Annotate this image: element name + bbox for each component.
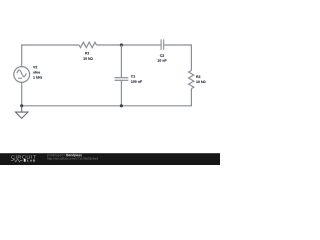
capacitor C1 (115, 78, 129, 81)
resistor R1 (79, 42, 96, 47)
label R2 (196, 76, 205, 83)
label C2 (158, 54, 167, 61)
node: ground junction (20, 104, 23, 107)
capacitor C2 (161, 39, 164, 50)
watermark logo CIRCUIT (11, 155, 36, 158)
resistor R2 (189, 71, 194, 89)
wire: C1 lower lead (120, 80, 122, 106)
wire: V2 top to top-left corner (21, 45, 23, 67)
wire: right rail lower (190, 89, 192, 107)
node: junction top of C1 (120, 43, 123, 46)
label R1 (83, 52, 92, 60)
wire: top rail, C2 to top-right corner (164, 44, 192, 46)
voltage source V2 (14, 67, 30, 83)
watermark text line 2 (47, 157, 98, 160)
node: junction bottom of C1 (120, 104, 123, 107)
ground (16, 106, 28, 119)
wire: top rail, R1 to C2 (96, 44, 160, 46)
CircuitLab watermark bar (0, 153, 220, 165)
wire: bottom rail (21, 105, 192, 107)
watermark text line 1 (47, 154, 82, 157)
watermark logo resistor squiggle (11, 159, 23, 162)
wire: right rail upper (190, 45, 192, 71)
label V2 (33, 66, 42, 79)
wire: top rail, corner to R1 (21, 44, 79, 46)
wire: V2 bottom to ground node (21, 82, 23, 105)
watermark logo LAB box (24, 159, 35, 162)
wire: C1 upper lead (120, 45, 122, 78)
label C1 (131, 75, 142, 83)
